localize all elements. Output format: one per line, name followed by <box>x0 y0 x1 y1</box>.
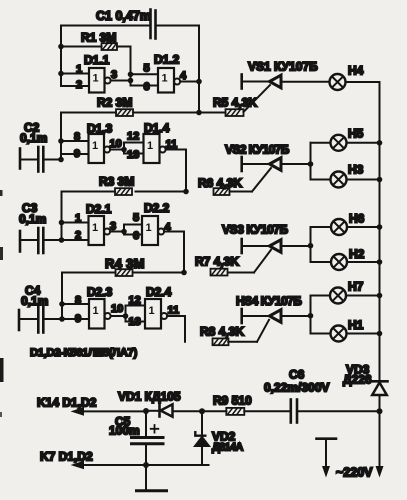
svg-text:2: 2 <box>75 230 81 242</box>
wire pin12 lead D2.4 <box>126 305 146 307</box>
resistor R7 <box>211 269 228 276</box>
svg-text:R2 3M: R2 3M <box>97 96 132 110</box>
wire pin2 lead D1.1 <box>61 85 89 87</box>
wire H2 to right bus <box>347 261 380 263</box>
svg-text:8: 8 <box>75 295 81 307</box>
lamp H6 <box>331 219 347 235</box>
svg-text:D2.1: D2.1 <box>86 202 112 216</box>
svg-text:C1 0,47m: C1 0,47m <box>96 9 151 23</box>
node D1.1 out / bracket <box>128 78 134 84</box>
svg-text:0,1m: 0,1m <box>20 131 47 145</box>
wire top bus from left vertical to C1 <box>61 25 149 27</box>
svg-text:1: 1 <box>92 140 98 152</box>
svg-text:H5: H5 <box>348 127 364 141</box>
wire R1 left lead <box>61 46 102 48</box>
svg-text:D1.1: D1.1 <box>84 53 110 67</box>
svg-text:11: 11 <box>168 305 180 317</box>
svg-text:R4 3M: R4 3M <box>105 256 145 271</box>
wire H1 lead left <box>311 333 331 335</box>
svg-text:9: 9 <box>75 313 81 325</box>
svg-text:D2.2: D2.2 <box>144 201 170 215</box>
capacitor C1 <box>151 10 156 39</box>
wire R8 lead <box>228 341 257 343</box>
svg-text:1: 1 <box>146 222 152 234</box>
wire H4 to right bus corner <box>346 82 380 143</box>
wire H5/H3 bracket vertical <box>310 143 312 180</box>
wire H7 to right bus <box>346 295 380 297</box>
resistor R9 <box>226 408 244 415</box>
node D1.4 out on R3 line <box>183 189 189 195</box>
svg-text:VD1 КД105: VD1 КД105 <box>118 390 181 404</box>
wire pin13 lead D1.4 <box>124 153 144 155</box>
wire D1.1 output to node <box>111 80 131 82</box>
wire left vertical osc2 <box>60 113 62 160</box>
lamp H1 <box>331 326 347 342</box>
gate U D1.3 <box>89 134 111 163</box>
resistor R5 <box>226 109 244 116</box>
wire H7/H1 bracket vertical <box>310 296 312 334</box>
node D2.2 out on R4 line <box>181 270 187 276</box>
arrow K7 <box>71 461 85 470</box>
wire pin12 lead D1.4 <box>124 142 144 144</box>
node C6 junction <box>377 408 383 414</box>
svg-text:VS2 КУ107Б: VS2 КУ107Б <box>225 143 290 157</box>
svg-text:100m: 100m <box>109 424 140 438</box>
thyristor VS2 <box>242 157 281 171</box>
node C3 junction <box>59 237 65 243</box>
lamp H5 <box>331 135 347 151</box>
wire D2.3 output to bracket <box>111 315 126 317</box>
wire VS2 anode to bracket <box>281 163 311 165</box>
wire VS3 anode to bracket <box>281 245 311 247</box>
wire pin8 lead D2.3 <box>62 303 89 305</box>
wire C3 right lead <box>45 239 62 241</box>
wire H5 lead left <box>311 142 331 144</box>
svg-text:D1.4: D1.4 <box>144 121 170 135</box>
node H3 bus <box>377 177 383 183</box>
node pin1 branch osc1 <box>58 71 64 77</box>
svg-text:13: 13 <box>129 316 141 328</box>
svg-text:~220V: ~220V <box>336 466 373 480</box>
svg-text:D1.3: D1.3 <box>87 122 113 136</box>
terminal bar C4 <box>18 310 21 330</box>
wire R1 right lead to bracket vertical <box>117 47 131 75</box>
wire right bus H4 to VD3 <box>379 143 381 381</box>
node H5 bus <box>377 140 383 146</box>
node R1 left junction <box>58 44 64 50</box>
svg-text:1: 1 <box>75 213 81 225</box>
svg-text:R8 4,3K: R8 4,3K <box>200 325 244 339</box>
svg-text:1: 1 <box>149 305 155 317</box>
lamp H2 <box>331 254 347 270</box>
edge artifact marks <box>0 190 4 417</box>
gate U D2.1 <box>89 216 111 245</box>
wire bracket vertical D2.4 inputs <box>125 306 127 322</box>
wire HS4 anode to bracket <box>281 315 311 317</box>
wire H6 to right bus <box>347 226 380 228</box>
svg-text:H3: H3 <box>348 163 364 177</box>
wire C5 top lead <box>145 411 147 436</box>
wire pin5 lead D2.2 <box>124 224 142 226</box>
wire bracket vertical D1.2 inputs <box>130 74 132 85</box>
node C4 junction <box>59 316 65 322</box>
wire VD2 node to VD1 <box>174 410 203 412</box>
gate U D1.4 <box>144 134 166 163</box>
svg-text:R5 4,3K: R5 4,3K <box>213 96 257 110</box>
svg-text:1: 1 <box>93 305 99 317</box>
wire left vertical osc1 <box>60 26 62 87</box>
wire R3 line <box>62 191 187 193</box>
terminal mains left with bar <box>317 439 337 478</box>
svg-text:12: 12 <box>127 131 139 143</box>
node R2/R5 junction <box>196 110 202 116</box>
wire pin5 lead D1.2 <box>131 73 159 75</box>
svg-text:VS1 КУ107Б: VS1 КУ107Б <box>248 60 318 74</box>
wire left vertical osc3 <box>61 192 63 241</box>
wire VS1 anode to lamp H4 <box>281 81 330 83</box>
node H6 bus <box>377 224 383 230</box>
node H1 bus <box>377 331 383 337</box>
svg-text:VS3 КУ107Б: VS3 КУ107Б <box>222 223 289 237</box>
svg-text:Д814А: Д814А <box>212 442 243 454</box>
gate U D1.1 <box>89 68 111 93</box>
wire D2.1 output to bracket <box>110 231 124 233</box>
node D1.3 out <box>121 147 127 153</box>
wire VD3 to 220V junction <box>379 395 381 411</box>
gate U D2.2 <box>142 216 164 245</box>
svg-text:H2: H2 <box>349 247 365 261</box>
svg-text:8: 8 <box>74 131 80 143</box>
wire C2 left lead <box>20 159 37 161</box>
wire C6 left lead to R9 <box>244 410 289 412</box>
lamp H3 <box>331 172 347 188</box>
wire C5 bottom lead <box>145 445 147 490</box>
lamp H4 <box>330 74 346 90</box>
svg-text:H6: H6 <box>349 212 365 226</box>
terminal bar C3 <box>19 231 22 252</box>
svg-text:Д226: Д226 <box>343 373 372 387</box>
svg-text:0,1m: 0,1m <box>19 212 46 226</box>
svg-text:D1.2: D1.2 <box>154 53 180 67</box>
resistor R1 <box>102 43 118 50</box>
svg-text:2: 2 <box>76 79 82 91</box>
svg-text:10: 10 <box>110 138 122 150</box>
thyristor VS3 <box>242 239 281 253</box>
svg-text:6: 6 <box>133 230 139 242</box>
ground C5 <box>137 489 167 492</box>
resistor R4 <box>116 269 133 276</box>
node H2 bus <box>377 259 383 265</box>
diode VD1 <box>160 404 173 416</box>
wire D2.4 output down to R8 line <box>167 316 185 342</box>
svg-text:D2.4: D2.4 <box>146 285 172 299</box>
wire pin2 lead D2.1 <box>62 239 89 241</box>
svg-text:1: 1 <box>162 73 168 85</box>
wire bracket vertical D2.2 inputs <box>123 225 125 235</box>
svg-text:R1 3M: R1 3M <box>81 31 116 45</box>
svg-text:H4: H4 <box>348 64 364 78</box>
wire R6 lead <box>230 191 253 193</box>
wire H3 lead left <box>311 179 331 181</box>
svg-text:5: 5 <box>144 63 150 75</box>
svg-text:R6 4,3K: R6 4,3K <box>198 176 242 190</box>
wire H3 to right bus <box>347 179 380 181</box>
wire H2 lead left <box>311 261 332 263</box>
svg-text:1: 1 <box>147 140 153 152</box>
svg-text:K14 D1,D2: K14 D1,D2 <box>37 396 97 410</box>
capacitor C6 <box>291 400 297 423</box>
node VS3 bracket <box>308 243 314 249</box>
wire D1.3 output to bracket <box>110 149 124 151</box>
wire VS3 gate diagonal <box>254 250 271 273</box>
zener diode VD2 <box>195 411 210 465</box>
thyristor HS4 <box>242 309 281 323</box>
node C5 top <box>143 408 149 414</box>
diode VD3 <box>372 381 388 395</box>
svg-text:6: 6 <box>144 81 150 93</box>
resistor R3 <box>115 188 132 195</box>
wire D2.2 output down to R4 line <box>164 232 184 273</box>
wire pin8 lead D1.3 <box>61 140 89 142</box>
svg-text:10: 10 <box>111 303 123 315</box>
wire pin1 lead D2.1 <box>62 222 89 224</box>
node pin8 branch <box>58 138 64 144</box>
wire H7 lead left <box>311 295 331 297</box>
arrow mains right <box>376 466 384 478</box>
wire D1.2 output to right vertical <box>180 81 199 83</box>
resistor R8 <box>213 338 229 345</box>
svg-text:D2.3: D2.3 <box>87 285 113 299</box>
wire K14 line <box>83 410 146 412</box>
capacitor C5 polarized <box>132 425 164 444</box>
wire D1.4 output down to R3 line <box>166 150 186 192</box>
node pin8 branch <box>59 301 65 307</box>
svg-text:K7 D1,D2: K7 D1,D2 <box>40 450 93 464</box>
wire pin6 lead D1.2 <box>131 85 159 87</box>
node HS4 bracket <box>308 313 314 319</box>
svg-text:R9 510: R9 510 <box>213 394 252 408</box>
gate U D2.4 <box>145 299 167 329</box>
wire C3 left lead <box>20 239 37 241</box>
resistor R6 <box>214 188 230 195</box>
arrow K14 <box>71 407 85 416</box>
node D2.1 out <box>121 229 127 235</box>
wire H5 to right bus <box>347 142 380 144</box>
svg-text:H7: H7 <box>348 280 364 294</box>
wire pin6 lead D2.2 <box>124 234 142 236</box>
wire R4 line <box>62 272 184 274</box>
wire C4 right lead <box>45 318 63 320</box>
gate U D2.3 <box>89 299 111 329</box>
wire C2 right lead <box>45 159 62 161</box>
wire R5 lead <box>199 112 226 114</box>
svg-text:9: 9 <box>74 148 80 160</box>
wire VS1 gate diagonal <box>244 85 271 112</box>
node VS2 bracket <box>308 161 314 167</box>
svg-text:1: 1 <box>76 64 82 76</box>
svg-text:12: 12 <box>129 295 141 307</box>
node VD2 top <box>199 408 205 414</box>
wire HS4 gate diagonal <box>257 320 269 342</box>
svg-text:R7 4,3K: R7 4,3K <box>195 255 239 269</box>
svg-text:H1: H1 <box>348 318 364 332</box>
wire pin9 lead D1.3 <box>61 153 89 155</box>
wire R9 to VD2 node <box>202 410 226 412</box>
wire R7 lead <box>228 272 254 274</box>
svg-text:3: 3 <box>111 69 117 81</box>
svg-text:4: 4 <box>180 70 187 82</box>
svg-text:HS4 КУ107Б: HS4 КУ107Б <box>236 294 302 308</box>
node pin1 branch <box>59 220 65 226</box>
thyristor VS1 <box>242 75 281 89</box>
node K7 junction <box>143 462 149 468</box>
svg-text:13: 13 <box>127 149 139 161</box>
wire pin1 lead D1.1 <box>61 73 89 75</box>
capacitor C3 <box>38 228 43 253</box>
wire left vertical osc4 <box>61 273 63 320</box>
svg-text:0,22m/300V: 0,22m/300V <box>264 381 329 395</box>
node D1.2 out on right vertical <box>196 79 202 85</box>
wire H1 to right bus <box>347 333 380 335</box>
capacitor C2 <box>38 147 43 172</box>
lamp H7 <box>330 288 346 304</box>
svg-text:1: 1 <box>92 222 98 234</box>
svg-text:5: 5 <box>133 212 139 224</box>
wire VD1 to C5 node <box>146 410 160 412</box>
wire C1 right to corner and down right vertical of osc1 <box>157 26 200 113</box>
node D2.3 out <box>123 313 129 319</box>
wire right bus to mains arrow <box>379 411 381 466</box>
node pin5 branch <box>128 72 134 78</box>
wire VS2 gate diagonal <box>252 168 271 192</box>
capacitor C4 <box>38 307 43 333</box>
gate U D1.2 <box>158 68 180 93</box>
svg-text:R3 3M: R3 3M <box>99 175 134 189</box>
node C2 junction <box>58 157 64 163</box>
wire C4 left lead <box>19 318 37 320</box>
svg-text:1: 1 <box>93 73 99 85</box>
wire K7 line <box>83 464 209 466</box>
svg-text:D1,D2-К561ЛЕ5(ЛА7): D1,D2-К561ЛЕ5(ЛА7) <box>30 347 137 359</box>
resistor R2 <box>116 109 133 116</box>
wire pin9 lead D2.3 <box>62 318 89 320</box>
svg-text:C6: C6 <box>289 368 305 382</box>
wire C6 right lead <box>298 410 379 412</box>
wire H6 lead left <box>311 226 332 228</box>
wire R2 line <box>61 112 199 114</box>
wire H6/H2 bracket vertical <box>310 227 312 262</box>
node H7 bus <box>377 293 383 299</box>
wire pin13 lead D2.4 <box>126 321 146 323</box>
wire bracket vertical D1.4 inputs <box>123 143 125 154</box>
terminal bar C2 <box>19 149 22 169</box>
